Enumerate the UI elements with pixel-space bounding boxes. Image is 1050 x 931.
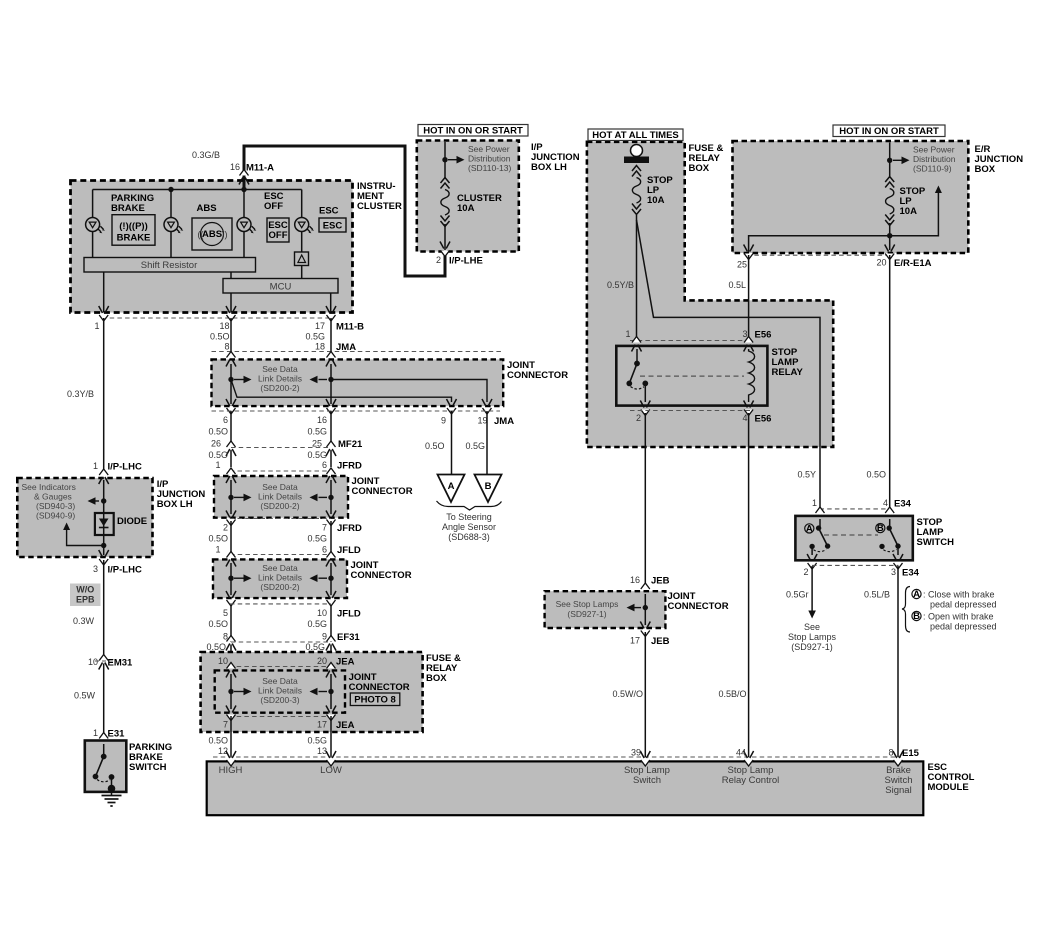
svg-text:ESC: ESC [323,221,343,232]
svg-text:CONNECTOR: CONNECTOR [351,570,412,581]
svg-text:0.5G: 0.5G [307,736,327,746]
svg-text:2: 2 [803,567,808,577]
svg-text:JMA: JMA [494,416,514,427]
svg-text:I/P-LHE: I/P-LHE [449,256,483,267]
relay pin 3 E56 [744,337,754,352]
svg-text:JFLD: JFLD [337,609,361,620]
svg-text:Link Details: Link Details [258,374,302,384]
note see stop lamps SD927-1 (switch) [788,622,837,652]
svg-text:See Data: See Data [262,482,298,492]
header HOT IN ON OR START [418,125,528,137]
fuse STOP LP 10A (E/R) [885,177,894,226]
stop lamp relay box [616,346,767,406]
svg-text:E/R-E1A: E/R-E1A [894,258,932,269]
switch blade [96,757,104,777]
arrow left see data link [310,376,328,384]
connector row E34 top dashed [820,508,891,510]
svg-text:BOX LH: BOX LH [157,499,193,510]
svg-text:See Data: See Data [262,676,298,686]
svg-text:0.5G: 0.5G [465,441,485,451]
wire lamp2 drop [170,190,172,258]
wire relay pin2 to JEB [644,413,646,587]
label INSTRUMENT CLUSTER [357,181,402,212]
parking brake switch box [85,741,127,792]
connector row JFLD bottom dashed [230,603,331,605]
svg-text:See Data: See Data [262,364,298,374]
wire JMA left down [230,382,232,404]
svg-text:BOX: BOX [426,673,447,684]
svg-text:W/O: W/O [76,585,94,595]
wire inside JMA right [330,364,332,380]
svg-text:0.5G: 0.5G [305,642,325,652]
ESC indicator box [319,218,346,232]
arrow left see stop lamps [627,604,642,612]
wire relay contact to pin 2 [644,383,646,402]
svg-text:)): )) [222,230,228,240]
svg-text:0.5O: 0.5O [210,332,230,342]
svg-text:2: 2 [636,413,641,423]
connector row M11-B dashed [102,317,332,319]
joint connector JEB box [545,591,666,628]
svg-text:0.3Y/B: 0.3Y/B [67,389,94,399]
connector 17 JEB [640,622,650,637]
wire 0.5O pin20 to switch pin4 [889,255,891,511]
svg-text:13: 13 [317,746,327,756]
svg-text:A: A [448,481,455,492]
label E/R JUNCTION BOX [975,144,1024,175]
svg-text:To Steering: To Steering [446,512,492,522]
connector JFLD pin 1 entry [226,552,236,567]
svg-text:JEA: JEA [336,720,355,731]
connector M11-B pin 1 [99,306,109,321]
svg-text:0.5O: 0.5O [208,736,228,746]
switch mechanical link dashed [824,534,878,536]
svg-text:BOX LH: BOX LH [531,162,567,173]
relay pin 4 [744,401,754,416]
svg-text:19: 19 [477,416,487,426]
svg-text:Link Details: Link Details [258,492,302,502]
svg-text:0.5G: 0.5G [307,427,327,437]
svg-text:10: 10 [88,657,98,667]
svg-text:JEB: JEB [651,636,670,647]
wire to pin 25 [749,236,890,252]
svg-text:17: 17 [317,720,327,730]
svg-text:0.5O: 0.5O [208,619,228,629]
wire JMA6 to MF21 [230,411,232,443]
pedal note circled B [912,611,921,622]
svg-text:1: 1 [93,728,98,738]
svg-text:See Power: See Power [913,145,955,155]
connector JEA pin 17 exit [326,706,336,721]
diode D1 [95,513,114,535]
svg-text:0.3W: 0.3W [73,616,95,626]
wire shift resistor to MCU [230,272,232,279]
svg-text:JFRD: JFRD [337,523,362,534]
svg-text:10: 10 [317,608,327,618]
connector JMA bottom pins [226,399,236,414]
svg-text:0.5G: 0.5G [307,534,327,544]
svg-text:ABS: ABS [197,203,217,214]
svg-text:0.5O: 0.5O [206,642,226,652]
pedal note circled A [912,589,921,600]
switch contact A [805,523,814,534]
svg-text:6: 6 [223,415,228,425]
wires inside JEA [231,674,331,709]
stop lamp switch box [795,516,912,560]
wire inside I/P junction box [444,142,446,250]
svg-text:(SD927-1): (SD927-1) [791,642,833,652]
node E/R power tap [887,158,892,163]
note to steering angle sensor [442,512,496,542]
svg-text:HOT IN ON OR START: HOT IN ON OR START [423,126,523,137]
svg-text:Shift Resistor: Shift Resistor [141,260,198,271]
joint connector JEA box [215,670,345,712]
svg-text:& Gauges: & Gauges [34,492,72,502]
svg-text:1: 1 [812,498,817,508]
svg-text:0.5O: 0.5O [208,427,228,437]
fuse STOP LP 10A (battery) [632,166,641,215]
connector JFLD pin 10 exit [326,591,336,606]
wire inside E/R box [889,143,891,236]
svg-text:4: 4 [883,498,888,508]
label FUSE & RELAY BOX [426,653,461,684]
svg-text:Stop Lamps: Stop Lamps [788,632,837,642]
svg-text:MF21: MF21 [338,439,363,450]
svg-text:EPB: EPB [76,595,95,605]
svg-text:8: 8 [888,748,893,758]
svg-text:Signal: Signal [885,785,911,796]
svg-text:(SD200-2): (SD200-2) [260,501,299,511]
I/P junction box LH (top, hot in on or start) [417,141,519,252]
svg-text:EF31: EF31 [337,632,360,643]
svg-text:0.5G: 0.5G [307,450,327,460]
svg-text:17: 17 [315,321,325,331]
connector module pin 8 [893,751,903,766]
wire switch pin2 to see stop lamps [811,566,813,611]
connector JFRD pin 2 exit [226,511,236,526]
wires inside JFLD [231,563,331,595]
wire JFLD to EF31 [231,606,331,642]
connector row JMA top dashed [212,351,504,353]
svg-text:See: See [804,622,820,632]
svg-text:16: 16 [230,162,240,172]
svg-text:10A: 10A [457,203,475,214]
svg-text:: Close with brake: : Close with brake [923,590,995,600]
node JEB dot [643,605,648,610]
svg-text:SWITCH: SWITCH [917,537,955,548]
node JFRD dots [228,495,233,500]
svg-text:Switch: Switch [633,775,661,786]
label JOINT CONNECTOR (JMA) [507,360,568,381]
wire JMA right dot to pin 19 [331,380,487,403]
svg-text:0.5O: 0.5O [208,534,228,544]
wire through JEB [644,594,646,625]
node junction dot bus-lamp2 [168,187,173,192]
wire JEA to ESC module pin12 [230,716,232,757]
label ESC OFF [264,191,284,212]
svg-text:PHOTO 8: PHOTO 8 [354,695,396,706]
svg-text:1: 1 [93,461,98,471]
PHOTO 8 box [350,693,400,706]
svg-text:B: B [913,611,920,622]
svg-text:2: 2 [436,255,441,265]
node below fuse [887,233,892,238]
wire JFRD to JFLD [231,521,331,553]
svg-text:6: 6 [322,545,327,555]
terminal triangle B [475,475,502,503]
wire branch up arrow to power distribution note [890,192,939,236]
wire L-shape to SD940-9 arrow [67,530,104,546]
svg-text:25: 25 [737,260,747,270]
svg-text:0.5O: 0.5O [425,441,445,451]
svg-text:BOX: BOX [975,164,996,175]
svg-text:See Indicators: See Indicators [22,482,76,492]
svg-text:(SD940-9): (SD940-9) [36,511,75,521]
svg-text:HOT IN ON OR START: HOT IN ON OR START [839,126,939,137]
arrow right see data link [234,376,252,384]
brake indicator box [112,215,155,246]
node power distribution tap [442,157,447,162]
lamp ABS [164,218,183,234]
dashed throw arc [97,780,110,782]
svg-text:CONNECTOR: CONNECTOR [507,370,568,381]
connector switch pin 4 [885,507,895,522]
wire EF31 to JEA [231,645,331,667]
svg-text:BOX: BOX [689,163,710,174]
wire JMA right down [330,382,332,404]
connector row JFRD top dashed [230,470,331,472]
svg-text:0.5G: 0.5G [307,619,327,629]
svg-text:(SD688-3): (SD688-3) [448,532,490,542]
relay mechanical link dashed [640,375,744,377]
connector JMA pin 18 entry [326,352,336,367]
svg-text:: Open with brake: : Open with brake [923,612,994,622]
relay pin 1 [632,337,642,352]
svg-text:1: 1 [215,545,220,555]
svg-text:Link Details: Link Details [258,686,302,696]
svg-text:A: A [913,589,920,600]
svg-text:E56: E56 [755,330,772,341]
wire JEA to ESC module pin13 [330,716,332,757]
svg-text:BRAKE: BRAKE [111,203,145,214]
wire JMA19 to triangle B [486,411,488,475]
note see indicators & gauges [22,482,76,521]
svg-text:4: 4 [742,413,747,423]
MCU box [223,279,338,294]
lamp ESC OFF [237,218,256,234]
svg-text:0.5G: 0.5G [305,332,325,342]
svg-text:10A: 10A [647,195,665,206]
wires inside JFRD [231,480,331,514]
label STOP LAMP SWITCH [917,517,955,548]
connector JEA pin 10 entry [226,663,236,678]
fuse & relay box (lower left) [201,652,423,732]
svg-text:9: 9 [322,632,327,642]
svg-text:0.5O: 0.5O [866,470,886,480]
svg-text:16: 16 [630,575,640,585]
note see data link details SD200-2 (JFRD) [258,482,302,511]
ESC OFF indicator box [267,218,289,242]
pedal note brace [902,587,910,633]
svg-text:LOW: LOW [320,765,342,776]
connector module pin 44 [744,751,754,766]
wire JMA left dot to pin 9 [231,380,452,403]
svg-text:0.5O: 0.5O [208,450,228,460]
switch internals parking brake [103,744,105,757]
svg-text:0.5B/O: 0.5B/O [718,689,746,699]
svg-text:(SD940-3): (SD940-3) [36,501,75,511]
connector pin 2 I/P-LHE [440,242,450,257]
svg-text:(!)((P)): (!)((P)) [119,221,147,232]
wire diode bottom to pin 3 [103,546,105,556]
svg-text:7: 7 [322,523,327,533]
connector pin 25 [744,245,754,260]
svg-text:0.5W: 0.5W [74,691,96,701]
svg-text:(SD200-3): (SD200-3) [260,695,299,705]
instrument cluster box [71,181,353,313]
svg-text:0.5Y: 0.5Y [797,470,816,480]
svg-text:10: 10 [218,656,228,666]
connector pin1 I/P-LHC [99,469,109,484]
svg-text:10A: 10A [900,206,918,217]
arrow right see power distribution [893,157,910,165]
svg-text:7: 7 [223,720,228,730]
connector row E56 bottom dashed [630,410,752,412]
shift resistor box [84,258,256,273]
wire lamp1 drop [92,190,94,258]
svg-text:3: 3 [891,567,896,577]
joint connector JMA box [212,359,504,406]
svg-text:See Stop Lamps: See Stop Lamps [556,599,619,609]
svg-text:JEB: JEB [651,576,670,587]
svg-text:B: B [877,523,884,534]
header HOT IN ON OR START (right) [833,125,945,137]
header HOT AT ALL TIMES [588,129,683,141]
note see data link details SD200-2 [258,364,302,393]
wire MCU to cluster pin 17 [330,293,332,313]
note see power distribution SD110-13 [468,144,511,173]
connector M11-B pin 17 [326,306,336,321]
svg-text:See Power: See Power [468,144,510,154]
svg-text:(SD110-13): (SD110-13) [468,163,511,173]
connector module pin 13 [326,751,336,766]
connector pin3 I/P-LHC [99,550,109,565]
wire inside I/P JB LH [103,480,105,546]
svg-text:MODULE: MODULE [928,782,969,793]
wire to ground [111,777,113,789]
note see power distribution SD110-9 [913,145,956,174]
svg-text:Relay Control: Relay Control [722,775,780,786]
svg-text:I/P-LHC: I/P-LHC [108,565,142,576]
ground [102,789,122,807]
note see data link details SD200-2 (JFLD) [258,563,302,592]
svg-text:(SD200-2): (SD200-2) [260,383,299,393]
fuse & relay box L-shape (hot at all times) [587,142,833,447]
wire EM31 to E31 [103,664,105,738]
lamp ESC [295,218,314,234]
svg-text:0.5Y/B: 0.5Y/B [607,280,634,290]
svg-text:0.5W/O: 0.5W/O [612,689,643,699]
svg-text:3: 3 [742,329,747,339]
svg-text:6: 6 [322,460,327,470]
connector JFRD pin 7 exit [326,511,336,526]
wire MF21 to JFRD [230,450,232,467]
connector switch pin 3 [893,554,903,569]
wire inside JMA left [230,364,232,380]
terminal triangle A [438,475,465,503]
svg-text:CONNECTOR: CONNECTOR [668,601,729,612]
wire cluster top bus [93,189,302,191]
svg-text:BRAKE: BRAKE [117,233,151,244]
svg-text:pedal depressed: pedal depressed [930,622,997,632]
svg-text:0.5L: 0.5L [728,280,746,290]
connector row E56 top dashed [630,340,752,342]
wire lamp4 drop [301,190,303,279]
connector module pin 39 [640,751,650,766]
wire arrow to see power distribution [448,156,465,164]
delta diagnostic box [295,252,309,266]
svg-text:JEA: JEA [336,657,355,668]
wire pin1 to I/P JB LH [103,318,105,471]
svg-text:CONNECTOR: CONNECTOR [349,682,410,693]
svg-text:I/P-LHC: I/P-LHC [108,462,142,473]
svg-text:16: 16 [317,415,327,425]
svg-text:1: 1 [625,329,630,339]
svg-text:20: 20 [876,258,886,268]
svg-text:18: 18 [219,321,229,331]
wire 0.5O cluster18 to JMA [230,318,232,353]
svg-text:2: 2 [223,523,228,533]
svg-text:3: 3 [93,564,98,574]
svg-text:pedal depressed: pedal depressed [930,600,997,610]
arrow left [310,494,328,502]
svg-text:(SD927-1): (SD927-1) [567,609,606,619]
svg-text:A: A [806,523,813,534]
svg-text:26: 26 [211,439,221,449]
svg-text:RELAY: RELAY [772,367,804,378]
wire switch pin3 to module 8 [897,566,899,757]
svg-text:EM31: EM31 [108,658,134,669]
node JMA right dot [328,377,333,382]
svg-text:Distribution: Distribution [913,154,956,164]
wire lamp3 drop [243,190,245,258]
relay switch contact [636,349,638,364]
svg-text:DIODE: DIODE [117,516,147,527]
svg-text:HOT AT ALL TIMES: HOT AT ALL TIMES [592,130,679,141]
svg-text:SWITCH: SWITCH [129,762,167,773]
label STOP LAMP RELAY [772,347,804,378]
label ESC CONTROL MODULE [928,762,975,793]
svg-text:8: 8 [224,342,229,352]
svg-text:OFF: OFF [264,201,283,212]
svg-text:Link Details: Link Details [258,573,302,583]
connector JEA pin 7 exit [226,706,236,721]
wire shift resistor to cluster pin 1 [103,272,105,313]
badge W/O EPB [70,584,101,607]
connector JFRD pin 6 entry [326,468,336,483]
connector JFRD pin 1 entry [226,468,236,483]
svg-text:20: 20 [317,656,327,666]
node diode bottom [101,543,106,548]
connector row E/R-E1A dashed [747,254,893,256]
svg-text:9: 9 [441,416,446,426]
connector pin 20 E/R-E1A [885,245,895,260]
connector row JMA bottom dashed [212,410,501,412]
svg-text:39: 39 [631,748,641,758]
svg-text:JFLD: JFLD [337,545,361,556]
connector switch pin 1 [815,507,825,522]
svg-text:B: B [485,481,492,492]
